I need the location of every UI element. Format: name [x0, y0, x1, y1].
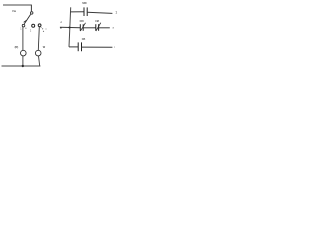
capacitor CM arrow [96, 23, 101, 31]
node C vertical rail [69, 7, 71, 47]
switch contact 2 [32, 24, 35, 27]
svg-text:CM: CM [95, 21, 99, 23]
wire rail to row3 [69, 46, 78, 48]
svg-text:CB: CB [82, 38, 86, 41]
wire row2 left end [60, 27, 62, 29]
wire contact1 to lamp L1 [22, 27, 24, 50]
svg-text:CRI: CRI [80, 21, 84, 23]
capacitor CM plates [95, 24, 97, 31]
bottom bus wire [2, 65, 41, 67]
switch S1 handle tick [24, 20, 27, 22]
switch contact 3 [38, 24, 41, 27]
wire rail to capacitor C1 [70, 11, 84, 13]
junction dot rail/row2 [69, 27, 71, 29]
wire top supply line [3, 4, 31, 6]
svg-text:Fw: Fw [13, 10, 16, 13]
wire C1 to terminal 1 [87, 12, 112, 13]
capacitor CR1 plates [79, 24, 81, 31]
wire lamp L1 to bus [22, 56, 24, 66]
label pin 3 [41, 27, 42, 28]
lamp L1 [21, 50, 27, 56]
switch S1 common terminal [30, 12, 33, 15]
svg-text:SRI: SRI [82, 2, 86, 5]
svg-text:1: 1 [115, 10, 117, 14]
wire contact3 to lamp L2 [38, 27, 39, 51]
wire lamp L2 to bus [39, 56, 40, 66]
capacitor C1 [83, 7, 85, 16]
switch contact 1 [22, 24, 25, 27]
switch S1 blade [24, 14, 30, 24]
svg-text:(R): (R) [15, 45, 19, 49]
wire CR1 to CM [83, 27, 96, 29]
wire CB to terminal 3 [82, 46, 113, 48]
wire down to switch common [30, 5, 32, 12]
capacitor CB plates [77, 42, 79, 51]
wire CM to terminal 2 [99, 27, 110, 29]
junction dot bus/L1 [22, 65, 24, 67]
capacitor CR1 arrow [80, 23, 85, 31]
lamp L2 [35, 50, 41, 56]
